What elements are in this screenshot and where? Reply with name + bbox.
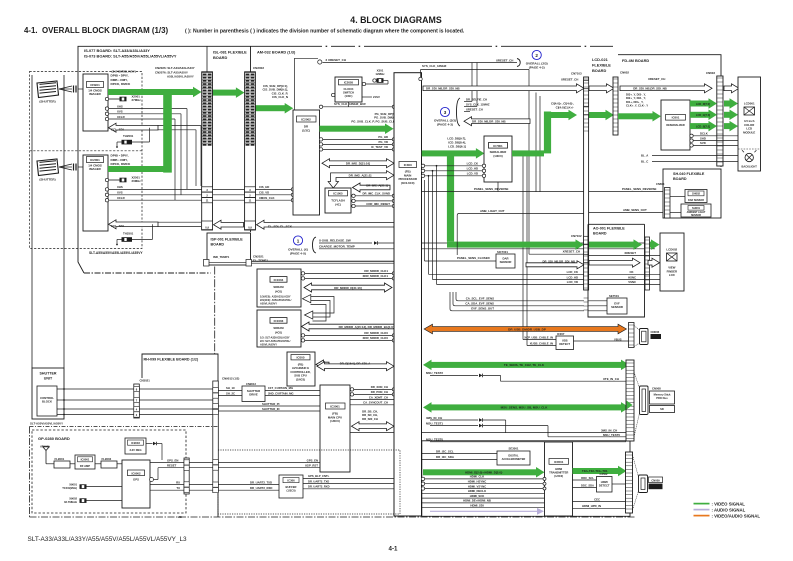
svg-text:12MHz: 12MHz <box>375 72 385 76</box>
flash memory TCFLASH box <box>325 188 351 213</box>
svg-text:IS-077 BOARD: SLT-A33/A33L/A33: IS-077 BOARD: SLT-A33/A33L/A33Y <box>84 48 150 53</box>
bus DR_IMG_D arrow <box>322 159 394 168</box>
wire board boundary below ISP <box>214 267 216 355</box>
svg-text:CN2002: CN2002 <box>253 66 264 70</box>
svg-text:SE7501: SE7501 <box>609 294 619 298</box>
wire SHD <box>690 139 693 142</box>
svg-text:GPS_BLP_CNTL: GPS_BLP_CNTL <box>308 474 330 478</box>
svg-text:CN603: CN603 <box>706 71 715 75</box>
video bus CN2026 to CN2002 <box>213 90 237 96</box>
top border dash-dot breaks <box>322 45 331 47</box>
svg-text:SH_1C: SH_1C <box>226 386 235 390</box>
svg-text:LCD_VD: LCD_VD <box>567 280 578 284</box>
main processor IC303 box <box>394 73 422 516</box>
svg-text:DR_USB_DM/DR_USB_DP: DR_USB_DM/DR_USB_DP <box>508 327 546 331</box>
connector CN7103 pin cells <box>584 78 589 80</box>
viewfinder LCD002 box <box>660 233 684 291</box>
svg-text:GPS: GPS <box>133 478 139 482</box>
svg-text:SH-040 FLEXIBLE: SH-040 FLEXIBLE <box>673 172 705 176</box>
svg-text:XRESET_CH: XRESET_CH <box>466 108 483 112</box>
connector LCD-021 right strip <box>613 77 618 135</box>
svg-text:SENSOR: SENSOR <box>611 305 623 309</box>
wire vertical pair to USB area <box>522 155 524 340</box>
svg-text:DRIVE: DRIVE <box>249 393 258 397</box>
bus DR_SDI_NB arrow small <box>464 117 530 126</box>
wire riser LCD_VD to viewfinder <box>436 165 438 167</box>
svg-text:DESERIALIZER: DESERIALIZER <box>666 124 685 127</box>
video bus MSU double arrow <box>431 404 622 410</box>
svg-text:IC1004: IC1004 <box>274 278 284 282</box>
page left boundary dash-dot <box>29 427 31 518</box>
audio-video bus DR_USB orange <box>424 324 627 334</box>
svg-text:1/3(4C0): A33/A33L/A33Y: 1/3(4C0): A33/A33L/A33Y <box>260 295 291 299</box>
svg-text:1/3: SLT-A33/A33L/A33Y: 1/3: SLT-A33/A33L/A33Y <box>260 336 290 340</box>
svg-text:LCD_DB[6:1]: LCD_DB[6:1] <box>448 144 466 148</box>
connector ISP left <box>204 260 210 267</box>
svg-text:IC007: IC007 <box>557 332 565 336</box>
wire vertical long x529 <box>528 70 530 255</box>
svg-text:TH2001: TH2001 <box>123 134 134 138</box>
wire SCL SDI pair imager2 <box>158 221 201 223</box>
svg-text:(PAGE 4-X): (PAGE 4-X) <box>290 252 306 256</box>
overall(3/3) reference annotation upper <box>440 107 449 116</box>
svg-text:DDC_SCL: DDC_SCL <box>581 476 594 480</box>
svg-text:PRO Duo: PRO Duo <box>656 396 668 400</box>
page bottom boundary dash-dot <box>30 516 637 518</box>
svg-text:ISP-001 FLEXIBLE: ISP-001 FLEXIBLE <box>211 238 244 242</box>
wire CA_XDMT_CH <box>350 399 394 401</box>
HDMI transmitter IC3501 box <box>545 442 573 516</box>
svg-text:SENSOR: SENSOR <box>500 260 512 264</box>
svg-text:SIC7001: SIC7001 <box>497 250 508 254</box>
svg-text:TX: TX <box>176 486 180 490</box>
svg-text:DETECT: DETECT <box>559 342 570 346</box>
svg-text:DR_UART2_RXD: DR_UART2_RXD <box>308 485 330 489</box>
svg-text:CN008: CN008 <box>652 387 661 391</box>
connector CN2026 pin 0,9 <box>202 221 213 230</box>
bus arrow into viewfinder <box>648 258 660 267</box>
audio wire into transmitter <box>430 510 537 512</box>
wire TCFLASH pin row <box>352 199 355 202</box>
svg-text:HDMI: HDMI <box>555 467 562 471</box>
main CPU IC3001 box <box>320 385 350 472</box>
svg-text:LCD: LCD <box>669 273 675 277</box>
wire DR_XON_CH <box>350 388 353 391</box>
wire SCL SDI pair imager1 <box>158 125 201 127</box>
svg-text:LCD_HD: LCD_HD <box>467 167 478 171</box>
svg-text:XRESET_CH: XRESET_CH <box>648 77 665 81</box>
svg-text:PANEL_SENS_CLOSED: PANEL_SENS_CLOSED <box>457 256 490 260</box>
svg-text:FL9002: FL9002 <box>102 457 112 461</box>
wire DR_MDDR_CLK1 <box>301 272 304 275</box>
video bus trunk down to AO-001 <box>447 153 454 241</box>
svg-text:IMAGER: IMAGER <box>89 167 101 171</box>
svg-text:: VIDEO SIGNAL: : VIDEO SIGNAL <box>712 501 746 506</box>
svg-text:X-SUB_RELEASE_SW: X-SUB_RELEASE_SW <box>319 239 351 243</box>
svg-text:Memory Stick: Memory Stick <box>654 393 671 397</box>
wire detect to CN009 <box>612 483 626 485</box>
svg-text:IC9003: IC9003 <box>131 441 140 445</box>
video bus CN2002 to DR block <box>256 105 286 111</box>
svg-text:DR_IMG_A[21:2]: DR_IMG_A[21:2] <box>349 173 372 177</box>
svg-text:DR_UART2_RXD: DR_UART2_RXD <box>250 486 272 490</box>
svg-text:GP-0280 BOARD: GP-0280 BOARD <box>38 436 70 441</box>
bus arrow CN603 to LCD module <box>724 84 739 93</box>
video bus AO-001 internal <box>589 242 634 248</box>
svg-text:LCD_VD: LCD_VD <box>467 172 478 176</box>
svg-text:PG_VD: PG_VD <box>379 140 388 144</box>
wire CN604 to ambient sensor <box>670 212 681 214</box>
svg-text:CN604: CN604 <box>656 182 665 186</box>
main processor top pin <box>419 77 422 80</box>
svg-text:HDMI_DE+/HDMI_NB: HDMI_DE+/HDMI_NB <box>463 499 491 503</box>
svg-text:DR_IMC_CLK_SUND: DR_IMC_CLK_SUND <box>362 192 390 196</box>
video bus imager1 to CN2026 <box>108 89 193 95</box>
svg-text:LCD-021: LCD-021 <box>592 57 609 62</box>
svg-text:SYS_CLK_12MHZ: SYS_CLK_12MHZ <box>422 64 447 68</box>
wire riser LCD_CK to viewfinder <box>428 175 430 177</box>
wire vertical pair to serializer <box>535 93 537 193</box>
svg-text:SHUTTER_ID: SHUTTER_ID <box>262 407 280 411</box>
svg-text:CA_SYNCOUT_CH: CA_SYNCOUT_CH <box>363 401 388 405</box>
dotted block boundary <box>218 450 400 514</box>
crystal X2001 27MHz circuit <box>105 97 108 100</box>
svg-text:VSNC: VSNC <box>628 280 636 284</box>
board FD-4M outline <box>618 55 721 167</box>
wire CA_SYNCOUT_CH <box>350 404 394 406</box>
board LCD-021 flexible outline <box>588 45 613 47</box>
LCD001 panel icon <box>744 107 755 115</box>
svg-text:3: 3 <box>444 110 447 115</box>
bus DR_IMG_A arrow with branch down <box>328 171 394 188</box>
wire LCD_HD to serializer <box>421 169 424 172</box>
wire DR_SELFIE_CH branch <box>471 63 473 102</box>
IC2001 designator <box>87 157 104 163</box>
svg-text:GPS_EN: GPS_EN <box>307 458 318 462</box>
svg-text:XRESET_CH: XRESET_CH <box>496 58 513 62</box>
legend audio signal <box>694 509 710 511</box>
svg-text:2ND_CURTAIN_MG: 2ND_CURTAIN_MG <box>268 391 294 395</box>
svg-text:IC3001: IC3001 <box>330 405 340 409</box>
svg-text:HDMI_DECLK: HDMI_DECLK <box>468 489 486 493</box>
svg-text:32.768kHz: 32.768kHz <box>64 500 78 504</box>
svg-text:(4C): (4C) <box>335 202 341 206</box>
svg-text:RH-099 FLEXIBLE BOARD (1/2): RH-099 FLEXIBLE BOARD (1/2) <box>144 358 199 362</box>
svg-text:DPCK, DMCK: DPCK, DMCK <box>111 82 132 86</box>
svg-text:(3C0-6C0): (3C0-6C0) <box>401 181 415 185</box>
svg-text:LCD_CK: LCD_CK <box>467 162 478 166</box>
svg-text:DR_MDDR_D[31:16]: DR_MDDR_D[31:16] <box>334 286 362 290</box>
svg-text:SH_2C: SH_2C <box>226 391 235 395</box>
svg-text:DR_SDI_CH: DR_SDI_CH <box>362 417 378 421</box>
bus arrow AO-001 internal <box>589 258 640 267</box>
svg-text:(1/3C0): (1/3C0) <box>287 489 296 493</box>
svg-text:(4C0): (4C0) <box>275 289 282 293</box>
video bus imager2 horizontal <box>108 166 164 172</box>
svg-text:XVS: XVS <box>117 110 123 114</box>
video bus processor to serializer <box>422 150 476 156</box>
svg-text:DR_PON_CH: DR_PON_CH <box>371 390 388 394</box>
wire EL_TEMP to main processor <box>209 262 246 264</box>
svg-text:HDMI_HSYNC: HDMI_HSYNC <box>468 480 487 484</box>
svg-text:DR_MDDR_CLK0: DR_MDDR_CLK0 <box>364 331 388 335</box>
shutter unit box <box>32 368 64 419</box>
brace for overall(1) signals <box>313 237 317 253</box>
svg-text:DR_I2C_SCL: DR_I2C_SCL <box>436 449 454 453</box>
bus DR_SDI_NB arrow into FD-4M <box>620 84 712 93</box>
svg-text:IMAGER: IMAGER <box>89 92 101 96</box>
svg-text:HDMI_HPD_IN: HDMI_HPD_IN <box>582 504 601 508</box>
svg-text:LCD002: LCD002 <box>666 248 677 252</box>
bus DR data arrow IC005 to processor <box>317 362 394 371</box>
svg-text:CN006: CN006 <box>651 330 660 334</box>
svg-text:X9001: X9001 <box>69 483 77 487</box>
bus arrow main CPU to processor <box>352 422 395 431</box>
svg-text:CA_SDA_EVF_SENS: CA_SDA_EVF_SENS <box>465 302 494 306</box>
svg-text:SENSOR: SENSOR <box>691 214 701 217</box>
svg-text:HDMI_VSYNC: HDMI_VSYNC <box>468 484 486 488</box>
svg-text:AM-032 BOARD (1/3): AM-032 BOARD (1/3) <box>257 50 296 55</box>
svg-text:BOARD: BOARD <box>592 68 606 73</box>
svg-text:SYS_CLK_12MHZ: SYS_CLK_12MHZ <box>466 102 490 106</box>
svg-text:27MHz: 27MHz <box>132 98 142 102</box>
svg-text:XRESET: XRESET <box>624 251 636 255</box>
SCL SDI arrow into CFB01 <box>109 123 159 132</box>
backlight lamp icon <box>745 153 753 161</box>
shutter blade icon 1 <box>37 81 59 98</box>
svg-text:(SHUTTER): (SHUTTER) <box>39 100 55 104</box>
svg-text:CK: CK <box>629 270 633 274</box>
svg-text:TRANSMITTER: TRANSMITTER <box>549 471 568 475</box>
connector CN2026 stem <box>206 46 208 72</box>
wire XRESET_CH horizontal <box>323 62 518 64</box>
svg-text:IC306: IC306 <box>287 479 295 483</box>
light path rays 1 <box>59 86 72 89</box>
svg-text:X9002: X9002 <box>69 497 77 501</box>
svg-text:(1/3C0): (1/3C0) <box>493 154 502 158</box>
svg-text:RF AMP: RF AMP <box>80 464 90 468</box>
svg-text:IND_TEMP1: IND_TEMP1 <box>213 255 230 259</box>
svg-text:CN9012 (1/2): CN9012 (1/2) <box>222 377 239 381</box>
connector CN2002 strip <box>245 72 256 230</box>
svg-text:(1/6C0): (1/6C0) <box>296 377 305 381</box>
svg-text:CFB01: CFB01 <box>90 83 100 87</box>
svg-text:AO-001 FLEXIBLE: AO-001 FLEXIBLE <box>593 227 625 231</box>
connector CN2026 strip <box>202 72 213 230</box>
svg-text:: VIDEO/AUDIO SIGNAL: : VIDEO/AUDIO SIGNAL <box>712 513 761 518</box>
svg-text:C3502: C3502 <box>600 472 608 476</box>
SDRAM IC1004 box <box>257 269 301 307</box>
wire thermistor TH2001 leads <box>117 141 122 143</box>
svg-text:PANEL_SENS_REVERSE: PANEL_SENS_REVERSE <box>622 187 657 191</box>
svg-text:LCD001: LCD001 <box>744 102 755 106</box>
wire LCD_VD to serializer <box>421 174 424 177</box>
svg-text:MSU_TEST2: MSU_TEST2 <box>426 371 443 375</box>
svg-text:MSU_TEST0: MSU_TEST0 <box>426 438 443 442</box>
wire SVD <box>690 144 693 147</box>
svg-text:DR_UART2_TXD: DR_UART2_TXD <box>308 479 329 483</box>
SCL SDI arrow into IC2001 <box>109 220 159 229</box>
video bus TX out of transmitter <box>573 468 620 474</box>
LCD module LCD001 box <box>738 77 761 171</box>
svg-text:IC_TEST_VD: IC_TEST_VD <box>371 145 388 149</box>
video bus HDMI_D into transmitter <box>423 469 537 475</box>
dotted leads to HDMI jack <box>633 455 639 477</box>
svg-text:3MS_IN_CH: 3MS_IN_CH <box>601 428 617 432</box>
bus arrow into IC005 <box>316 360 329 369</box>
serializer IC7001 box <box>484 136 512 182</box>
GPS module IC9002 box <box>122 460 150 508</box>
svg-text:XGP_RST: XGP_RST <box>305 464 318 468</box>
svg-text:PG_HD: PG_HD <box>378 135 388 139</box>
shutter column right wire <box>63 75 65 368</box>
svg-text:21SV: 21SV <box>373 95 380 99</box>
svg-text:CN3021: CN3021 <box>140 379 151 383</box>
svg-text:XHS: XHS <box>117 104 123 108</box>
svg-text:TE_SENS, TE_CH2, TE_CLK: TE_SENS, TE_CH2, TE_CLK <box>504 363 545 367</box>
svg-text:IC2005: IC2005 <box>344 81 354 85</box>
svg-text:PANEL_SENS_REVERSE: PANEL_SENS_REVERSE <box>474 187 509 191</box>
svg-text:CA_XDMT_CH: CA_XDMT_CH <box>369 395 388 399</box>
wire DCLK <box>690 134 693 137</box>
svg-text:DR_SDI_NB,DR_SDI_NB: DR_SDI_NB,DR_SDI_NB <box>633 87 667 91</box>
wire riser panel sens <box>424 180 426 261</box>
bus hook arrows between SDRAMs <box>311 297 335 322</box>
board ISP-001 flexible outline <box>207 233 251 265</box>
svg-text:UNIT: UNIT <box>44 376 53 380</box>
overall(2/3) reference annotation <box>532 50 541 59</box>
svg-text:20MHz: 20MHz <box>132 179 142 183</box>
legend video/audio signal <box>694 515 710 517</box>
connector CN2026 pin rows lower <box>202 187 213 192</box>
svg-text:ISL-081 FLEXIBLE: ISL-081 FLEXIBLE <box>213 50 247 55</box>
svg-text:LCD_HD: LCD_HD <box>567 275 578 279</box>
HDMI connector strip <box>626 452 633 513</box>
svg-text:FD-4M BOARD: FD-4M BOARD <box>622 58 649 63</box>
svg-text:: AUDIO SIGNAL: : AUDIO SIGNAL <box>712 507 746 512</box>
wire DR_MDDR_CLK0 <box>301 334 304 337</box>
wire serializer bottom stub <box>497 182 499 192</box>
wire XMOS_CLK <box>256 199 292 201</box>
video bus head into memory stick connector <box>627 401 633 410</box>
wire DR_PON_CH <box>350 393 353 396</box>
svg-text:DR_SDI_NB,DR_SDI_NB: DR_SDI_NB,DR_SDI_NB <box>426 87 460 91</box>
wire IC_TEST_VD <box>319 148 322 151</box>
video bus to CN7102 <box>447 242 576 248</box>
svg-text:SHD: SHD <box>700 136 706 140</box>
EL_SDI EL_SCK arrow between connectors <box>214 220 244 229</box>
shutter blade icon 2 <box>37 159 59 176</box>
buffer IC306 box <box>279 475 303 498</box>
svg-text:DR_MDDR_A[15:13], DR_MDDR_BA[1: DR_MDDR_A[15:13], DR_MDDR_BA[1:0] <box>339 325 394 329</box>
svg-text:CIS_VD: CIS_VD <box>259 191 269 195</box>
svg-text:4-1: 4-1 <box>389 546 399 553</box>
wires HDMI signals x7 <box>421 477 424 480</box>
svg-text:SH001: SH001 <box>692 206 700 210</box>
connector CN2002 pin 0,9 <box>245 221 256 230</box>
svg-text:2 XRESET_CH: 2 XRESET_CH <box>326 58 347 62</box>
wire CIS_VD <box>256 194 292 196</box>
svg-text:HDMI: HDMI <box>601 480 608 484</box>
image sensor IC2001 box <box>83 155 108 231</box>
wire DR_IMC_CLK <box>352 194 355 197</box>
memory stick connector strip <box>626 360 634 441</box>
svg-text:A55VL/A55VY: A55VL/A55VY <box>260 301 277 305</box>
svg-text:IC9002: IC9002 <box>131 471 140 475</box>
svg-text:EL_TEMP1: EL_TEMP1 <box>253 259 268 263</box>
wire XRESET_CH from driver top <box>293 58 295 110</box>
RF amp IC9001 box <box>75 455 95 469</box>
labels CN009 HDMI <box>649 477 663 483</box>
image sensor CFB01 box <box>83 74 108 131</box>
video bus TE double arrow <box>431 362 622 368</box>
svg-text:HDMI_SCK: HDMI_SCK <box>470 494 485 498</box>
svg-text:SCL, SDI: SCL, SDI <box>111 128 124 132</box>
svg-text:BOARD: BOARD <box>213 55 227 60</box>
svg-text:CN9013: CN9013 <box>246 382 256 386</box>
vertical driver block DR <box>293 110 320 215</box>
board AM-032 outline top <box>251 45 589 47</box>
LCD001 backlight divider <box>738 148 761 150</box>
IC2001 sync pins XHS XVS XCLR <box>105 188 108 191</box>
HDMI jack slot symbol <box>639 475 648 493</box>
wire sync row XHS to connectors <box>109 188 246 190</box>
svg-text:BOARD: BOARD <box>211 243 225 247</box>
svg-text:CI[4:0]CLK+/-: CI[4:0]CLK+/- <box>556 105 574 109</box>
video bus serializer out <box>512 150 544 156</box>
dashed enclosure around shutters <box>30 72 143 249</box>
bus DR_IMC_A arrow to TCFLASH <box>353 183 391 192</box>
svg-text:IC303: IC303 <box>404 163 412 167</box>
video bus CN603 to LCD module x3 <box>724 101 731 107</box>
svg-text:XCLR: XCLR <box>117 196 125 200</box>
svg-text:BLOCK: BLOCK <box>42 400 52 404</box>
connector CN006 pin strip <box>629 323 635 348</box>
bus DR_MDDR_D[31:16] arrow <box>304 283 392 292</box>
svg-text:1ST_CURTAIN_MG: 1ST_CURTAIN_MG <box>268 386 293 390</box>
svg-text:SHUTTER_PI: SHUTTER_PI <box>262 402 280 406</box>
wires CN3021 to CN9012 <box>139 388 213 390</box>
svg-text:XVS: XVS <box>117 191 123 195</box>
board IS-077/IS-073 outline <box>78 46 211 273</box>
memory stick slot symbol <box>640 386 649 415</box>
svg-text:CN009: CN009 <box>651 478 660 482</box>
svg-text:XCLR: XCLR <box>117 115 125 119</box>
svg-text:IC2002: IC2002 <box>301 118 311 122</box>
wire LCD_CK to serializer <box>421 164 424 167</box>
svg-text:IC1003: IC1003 <box>274 319 284 323</box>
svg-text:LCD_CK: LCD_CK <box>567 270 578 274</box>
svg-text:HDMI_SDI: HDMI_SDI <box>470 504 484 508</box>
svg-text:SLT-A33/A33L/A33Y/A55/A55V/A55: SLT-A33/A33L/A33Y/A55/A55V/A55L/A55VL/A5… <box>28 536 187 543</box>
svg-text:0,9: 0,9 <box>248 226 252 230</box>
sensor SH002 DAR box <box>685 190 707 203</box>
svg-text:TCXO(MHz): TCXO(MHz) <box>62 486 77 490</box>
svg-text:CLK+_Y, CLK-_Y: CLK+_Y, CLK-_Y <box>626 104 648 108</box>
wire RF amp to FL9002 <box>95 463 101 465</box>
svg-text:IC601: IC601 <box>672 116 680 120</box>
SDRAM IC1003 box <box>257 310 301 347</box>
svg-text:(1/3C): (1/3C) <box>302 128 310 132</box>
svg-text:AMB_SENS_OUT: AMB_SENS_OUT <box>623 208 647 212</box>
wire DR_IMC_RESET <box>352 204 355 207</box>
svg-text:DCLK: DCLK <box>700 132 708 136</box>
bus DR_SDI_NB arrow across LCD-021 <box>589 84 614 93</box>
wire regulator diode <box>146 443 153 445</box>
bus DR_MDDR_A arrow <box>302 322 395 331</box>
deserializer IC601 box <box>661 100 690 150</box>
svg-text:CN7103: CN7103 <box>571 72 582 76</box>
